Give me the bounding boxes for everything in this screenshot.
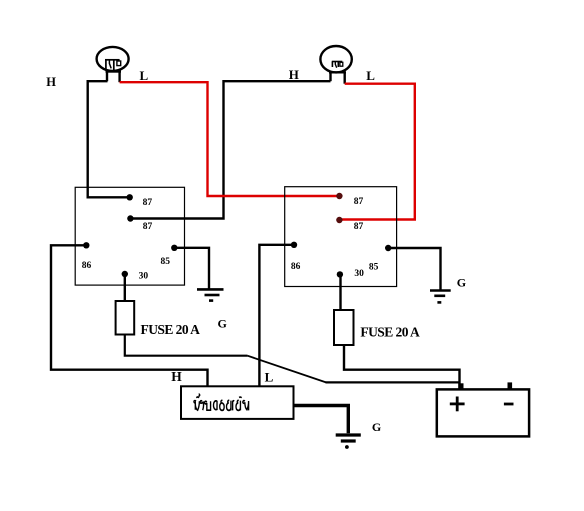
sara i: [239, 396, 242, 399]
relay K1 (left relay box): [75, 187, 184, 285]
node relay2 pin86: [291, 242, 297, 248]
fuse F1: [116, 301, 135, 335]
pin 87 label (relay1 row2): [143, 222, 153, 232]
pin 87 label (relay2 row1): [354, 197, 364, 207]
label L (lamp1): [140, 68, 149, 83]
label H (lamp2): [289, 67, 299, 82]
node relay1 pin87: [127, 194, 133, 200]
wire lamp1-H to relay1 pin87: [88, 81, 130, 197]
svg-text:H: H: [46, 75, 56, 89]
kho khai with mai han akat + mai tho: [194, 401, 199, 411]
battery plus terminal stub: [458, 383, 463, 389]
node relay1 pin87b: [127, 215, 133, 221]
pin 86 label (relay2): [291, 262, 301, 272]
ground G1 (relay1): [197, 289, 224, 300]
svg-text:86: 86: [82, 261, 92, 271]
node relay1 pin85: [171, 245, 177, 251]
wire relay1 pin30 to fuse F1: [124, 274, 126, 301]
wire relay2 pin85 to ground: [388, 248, 440, 290]
battery minus sign: [504, 403, 514, 406]
svg-text:H: H: [171, 369, 182, 384]
svg-text:87: 87: [354, 222, 364, 232]
label FUSE 20 A (fuse1): [141, 322, 201, 337]
node relay2 pin30: [337, 271, 343, 277]
svg-text:L: L: [140, 68, 149, 83]
label FUSE 20 A (fuse2): [360, 324, 420, 339]
node relay1 pin86: [83, 242, 89, 248]
lamp LAMP2 (right headlight bulb): [320, 46, 351, 84]
svg-text:87: 87: [354, 197, 364, 207]
pin 85 label (relay1): [161, 257, 171, 267]
relay K2 (right relay box): [285, 187, 397, 287]
o ang: [220, 400, 224, 410]
svg-text:G: G: [457, 276, 466, 290]
ground G3 dot: [345, 445, 349, 449]
label G (ground1): [218, 317, 227, 331]
pin 86 label (relay1): [82, 261, 92, 271]
pin 85 label (relay2): [369, 263, 379, 273]
pin 87 label (relay1 row1): [143, 198, 153, 208]
battery BT1: [437, 389, 529, 436]
wire relay1 pin85 to ground: [174, 248, 209, 290]
pin 87 label (relay2 row2): [354, 222, 364, 232]
svg-text:85: 85: [369, 263, 379, 273]
wire bulb socket to ground (thick): [295, 406, 349, 434]
mo ma: [243, 401, 249, 411]
svg-text:30: 30: [354, 269, 364, 279]
svg-text:G: G: [218, 317, 227, 331]
label G (ground3): [372, 420, 381, 434]
label G (ground2): [457, 276, 466, 290]
lamp LAMP1 (left headlight bulb): [97, 47, 129, 82]
do dek 2: [236, 400, 240, 410]
ground G3 (bulb socket, thick): [336, 435, 361, 441]
pin 30 label (relay1): [139, 272, 149, 282]
sara e: [233, 401, 235, 411]
label L (lamp2): [366, 68, 375, 83]
node relay2 pin87 (red): [336, 193, 342, 199]
wire lamp1-L to relay2 pin87 (red): [120, 82, 340, 196]
node relay1 pin30: [122, 271, 128, 277]
ho hip: [204, 401, 210, 410]
fuse F2: [334, 310, 354, 345]
wire relay1 pin87b to lamp2-H: [130, 81, 330, 218]
wire fuse F1 to battery plus (with diagonal): [125, 335, 459, 383]
lo ling: [213, 401, 217, 410]
pin 30 label (relay2): [354, 269, 364, 279]
svg-text:85: 85: [161, 257, 171, 267]
box original bulb socket: [181, 386, 294, 419]
battery minus terminal stub: [508, 382, 513, 389]
wire relay1 pin86 to bulb-socket H: [51, 245, 208, 386]
wire fuse F2 to battery plus: [344, 345, 460, 389]
svg-text:G: G: [372, 420, 381, 434]
ground G2 (relay2): [430, 291, 451, 303]
wire relay2 pin86 to bulb-socket L: [259, 245, 294, 387]
svg-text:FUSE 20 A: FUSE 20 A: [360, 324, 420, 339]
svg-text:FUSE 20 A: FUSE 20 A: [141, 322, 201, 337]
node relay2 pin87b (red): [336, 217, 342, 223]
svg-text:L: L: [366, 68, 375, 83]
wo waen: [200, 401, 203, 410]
battery plus sign: [450, 397, 465, 412]
do dek: [227, 400, 231, 410]
label H (bulb socket): [171, 369, 182, 384]
svg-text:87: 87: [143, 222, 153, 232]
svg-text:L: L: [265, 369, 274, 384]
label Thai text (bulb socket) drawn as paths: [194, 394, 249, 410]
svg-text:86: 86: [291, 262, 301, 272]
wire lamp2-L to relay2 pin87b (red): [339, 84, 414, 220]
svg-text:30: 30: [139, 272, 149, 282]
wire relay2 pin30 to fuse F2: [339, 274, 341, 310]
svg-text:87: 87: [143, 198, 153, 208]
label H (lamp1): [46, 75, 56, 89]
label L (bulb socket): [265, 369, 274, 384]
svg-text:H: H: [289, 67, 299, 82]
node relay2 pin85: [385, 245, 391, 251]
